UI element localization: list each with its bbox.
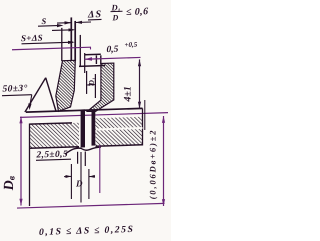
bead curve bbox=[65, 147, 101, 154]
collar line bbox=[79, 65, 105, 68]
tool cone lines bbox=[25, 78, 46, 112]
right plate bbox=[142, 108, 144, 145]
svg-text:ΔS: ΔS bbox=[87, 9, 102, 20]
S dim line bbox=[52, 29, 74, 32]
left plate bbox=[30, 123, 80, 149]
purple surface ext line bbox=[20, 113, 168, 118]
bottom purple line bbox=[17, 203, 165, 208]
wire bore ext left bbox=[86, 71, 88, 94]
wire wall R outer bbox=[100, 55, 102, 64]
svg-text:D: D bbox=[112, 13, 119, 22]
svg-text:50±3°: 50±3° bbox=[3, 83, 28, 95]
svg-text:S+ΔS: S+ΔS bbox=[21, 33, 43, 44]
wire v4 bbox=[79, 35, 81, 66]
purple vertical x99.8 bbox=[99, 145, 101, 193]
dS dim arrows bbox=[57, 22, 71, 24]
svg-text:0,1S ≤ ΔS ≤ 0,25S: 0,1S ≤ ΔS ≤ 0,25S bbox=[39, 224, 134, 238]
svg-text:+0,5: +0,5 bbox=[125, 41, 138, 49]
wire extension v1 bbox=[61, 28, 63, 61]
svg-text:4±1: 4±1 bbox=[123, 86, 134, 103]
tube lower verticals bbox=[77, 152, 79, 164]
surface line bbox=[26, 108, 143, 112]
Dv dim bbox=[20, 117, 22, 206]
4+-1 dim bbox=[123, 86, 134, 103]
D dim bbox=[70, 164, 72, 199]
svg-text:D: D bbox=[75, 178, 83, 188]
svg-text:≤ 0,6: ≤ 0,6 bbox=[126, 6, 148, 18]
svg-text:Dв: Dв bbox=[2, 175, 17, 192]
tube rim bbox=[85, 53, 101, 56]
centerline bbox=[80, 152, 82, 203]
wire wall R inner bbox=[95, 55, 97, 64]
right dim (0,06Dv+6)+-2 bbox=[163, 116, 165, 206]
tube wall bars bbox=[81, 109, 85, 147]
wire bore ext right bbox=[94, 74, 96, 98]
0,5 dim line purple bbox=[85, 57, 141, 59]
purple line P1 bbox=[12, 47, 91, 50]
svg-text:(0,06Dв+6)±2: (0,06Dв+6)±2 bbox=[148, 129, 158, 200]
wire tube wall B bbox=[74, 21, 76, 61]
right wall hatch band bbox=[87, 63, 114, 112]
label D1 inner bbox=[87, 77, 96, 86]
flare hatch band left bbox=[56, 60, 76, 111]
svg-text:S: S bbox=[42, 16, 47, 26]
wire tube wall A bbox=[70, 17, 72, 61]
wire v5 bbox=[84, 53, 86, 73]
svg-text:0,5: 0,5 bbox=[107, 45, 119, 55]
